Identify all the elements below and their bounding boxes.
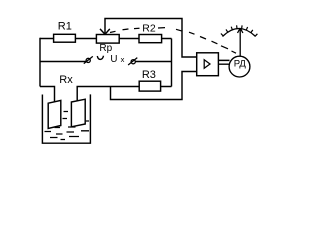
svg-text:Rp: Rp — [99, 43, 112, 54]
svg-text:R1: R1 — [58, 21, 72, 33]
svg-text:x: x — [121, 55, 125, 64]
svg-text:U: U — [110, 54, 117, 65]
svg-text:R2: R2 — [142, 22, 156, 34]
svg-text:Rx: Rx — [59, 74, 73, 86]
svg-text:R3: R3 — [142, 69, 156, 81]
svg-text:РД: РД — [234, 58, 247, 69]
